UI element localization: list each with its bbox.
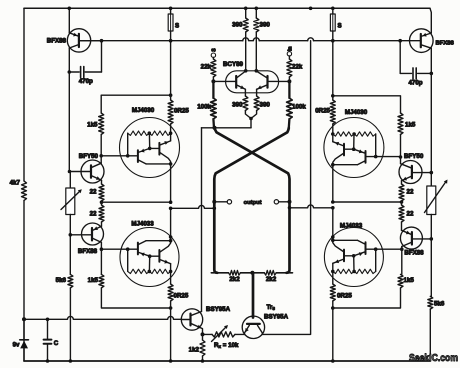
label 5k6 right	[434, 301, 445, 308]
Q3 base lead	[69, 233, 93, 237]
label 390 ll	[232, 102, 243, 109]
power darlington U4 MJ4030 envelope	[324, 118, 384, 178]
label 1k5 lower right	[404, 277, 415, 284]
label MJ4030 right	[345, 109, 368, 116]
svg-text:22: 22	[407, 189, 414, 196]
U4 output base bar	[343, 144, 345, 156]
wire fuse-line to bottom rail	[170, 308, 172, 361]
label 22k right	[292, 64, 303, 71]
RV2 arrow	[425, 180, 448, 213]
label 1k5 upper left	[87, 122, 98, 129]
wire bottom rail	[24, 360, 430, 362]
U5 output emitter lead	[333, 259, 344, 263]
U1 driver collector lead	[138, 160, 171, 164]
wire 1k5 to BFY50 collector node	[100, 135, 102, 156]
svg-text:S: S	[175, 23, 179, 30]
junction bottom rail fuse-line	[169, 359, 173, 363]
svg-text:BFX88: BFX88	[404, 249, 424, 256]
label 470p	[79, 78, 93, 85]
wire 0R25 to junction	[169, 301, 173, 310]
junction on top rail at 390 columns	[244, 7, 258, 11]
Q6 collector lead	[402, 242, 412, 249]
U5 emitter exit to 0R25	[331, 263, 335, 284]
U4 collector entry from 0R25	[331, 124, 335, 142]
Q7 base bar	[420, 34, 422, 47]
junction Q6 collector / U5 base	[400, 247, 404, 251]
capacitor C	[44, 319, 52, 361]
Q3 emitter lead	[92, 222, 102, 231]
thick wire left node to right vertical	[214, 128, 290, 273]
svg-text:22: 22	[90, 189, 97, 196]
U3 right emitter	[257, 85, 268, 93]
terminal output right	[274, 200, 278, 204]
U5 base lead	[366, 248, 402, 250]
junction 390 merge	[249, 117, 253, 128]
svg-text:Rx = 10k: Rx = 10k	[214, 342, 239, 349]
svg-text:0R25: 0R25	[337, 293, 352, 300]
label S offset	[212, 48, 218, 52]
label 9V	[13, 342, 20, 349]
U1 collector entry from 0R25	[169, 124, 173, 141]
wire Tr8 emitter to Rx	[235, 333, 245, 335]
junction on top rail at Tr8 collector line	[309, 7, 313, 11]
svg-text:S: S	[212, 48, 218, 52]
U5 resistor R2	[333, 269, 356, 273]
label 22 d	[407, 211, 414, 218]
U4 driver base bar	[365, 151, 367, 163]
svg-text:BSY95A: BSY95A	[264, 314, 289, 321]
wire hop over Tr8 collector line	[308, 38, 314, 41]
svg-text:BFY50: BFY50	[404, 153, 424, 160]
label MJ4033 right	[340, 223, 363, 230]
resistor 390 lower left	[243, 93, 251, 119]
junction bias rail left end	[22, 317, 26, 321]
U5 output collector lead	[333, 240, 344, 252]
wire base rail y41 left section	[80, 40, 243, 42]
svg-text:22k: 22k	[201, 64, 212, 71]
label 1k5 upper right	[405, 122, 416, 129]
svg-text:100k: 100k	[292, 104, 306, 111]
Q6 base bar	[411, 232, 413, 244]
svg-text:output: output	[244, 200, 262, 206]
U1 driver base bar	[137, 150, 139, 162]
label 0R25 lower left	[174, 293, 189, 300]
resistor 22k right	[287, 56, 292, 81]
Rx arrow	[212, 325, 229, 342]
label 22 c	[407, 189, 414, 196]
resistor 5k6 left	[68, 274, 73, 288]
wire collector node down right	[400, 157, 402, 163]
junction output right	[288, 200, 292, 204]
junction bottom rail 1k2	[201, 359, 205, 363]
capacitor C2 470p	[400, 41, 433, 79]
wire emitter tap right	[331, 200, 402, 204]
Q6 base lead	[412, 237, 433, 241]
U2 output collector lead	[159, 241, 170, 253]
label BFY50 right	[404, 153, 424, 160]
U4 resistor R1	[354, 132, 376, 136]
wire emitter tap left	[102, 200, 173, 204]
U3 left collector	[236, 69, 247, 78]
U5 driver emitter lead	[354, 252, 366, 256]
wire right col2 mid	[430, 73, 432, 186]
U2 collector entry	[169, 208, 173, 242]
Q4 base lead	[181, 319, 190, 321]
wire Q3 collector down	[100, 249, 102, 274]
svg-text:5k6: 5k6	[434, 301, 445, 308]
U1 base lead	[101, 155, 138, 157]
U4 driver emitter lead	[354, 149, 366, 153]
resistor R 22 a	[99, 184, 104, 201]
label 4k7	[10, 180, 21, 187]
svg-text:22k: 22k	[292, 64, 303, 71]
svg-text:0R25: 0R25	[174, 293, 189, 300]
U1 resistor R1	[128, 131, 150, 135]
dual transistor U3 BCY89 envelope	[226, 71, 279, 93]
Q5 collector lead	[401, 164, 412, 169]
junction on top rail at left fuse	[169, 7, 173, 11]
Q4 emitter lead	[191, 323, 203, 334]
U1 emitter exit	[169, 162, 173, 202]
U3 right base bar	[266, 76, 268, 88]
svg-text:390: 390	[260, 102, 271, 109]
label BFX88 Q6	[404, 249, 424, 256]
wire bias rail	[24, 316, 181, 319]
svg-text:MJ4033: MJ4033	[340, 223, 363, 230]
junction bias rail cap C	[46, 318, 50, 322]
Q2 collector lead	[91, 163, 101, 168]
label output	[244, 200, 262, 206]
svg-text:390: 390	[232, 22, 243, 29]
transistor Q1 base bar	[78, 34, 80, 47]
label 390 lr	[260, 102, 271, 109]
U1 output base bar	[158, 143, 160, 155]
Q3 collector lead	[92, 238, 101, 249]
Q6 emitter lead	[402, 222, 412, 235]
terminal output left	[227, 200, 231, 204]
U3 right collector	[254, 69, 267, 78]
Tr8 base bar	[247, 323, 260, 325]
U5 driver base bar	[365, 242, 367, 254]
junction BFY50 collector node	[99, 154, 103, 158]
label 1k2	[189, 347, 200, 354]
wire 0R25r to junction	[331, 301, 335, 310]
junction base rail / left fuse	[169, 39, 173, 43]
transistor Q1 collector lead	[69, 45, 79, 73]
label 390 ul	[232, 22, 243, 29]
label 470p right	[408, 79, 422, 86]
svg-text:S: S	[338, 23, 342, 30]
svg-text:C: C	[54, 340, 59, 347]
svg-text:2k2: 2k2	[229, 276, 240, 283]
wire collector node down	[100, 156, 102, 163]
svg-text:470p: 470p	[79, 78, 93, 85]
label 5k6 left	[56, 277, 67, 284]
U4 resistor R2	[333, 132, 356, 136]
label 390 ur	[260, 22, 271, 29]
U2 resistor R1	[128, 269, 150, 273]
svg-text:2k2: 2k2	[266, 276, 277, 283]
Tr8 emitter lead	[245, 325, 250, 334]
wire right fuse-line to bottom rail	[332, 308, 334, 361]
U4 emitter junction	[344, 134, 356, 151]
U1 driver emitter lead	[138, 148, 150, 152]
wire output stub left	[214, 201, 227, 203]
label 2k2 right	[266, 276, 277, 283]
U1 resistor R2	[148, 131, 171, 135]
svg-text:1k5: 1k5	[405, 122, 416, 129]
Q7 base lead	[410, 40, 421, 42]
wire output stub right	[279, 201, 290, 203]
label 100k left	[197, 104, 211, 111]
transistor Q1 emitter lead	[69, 8, 79, 36]
junction bottom rail 5k6	[69, 359, 73, 363]
junction base rail / left cap drop	[100, 39, 104, 43]
wire base rail y41 mid section	[259, 40, 308, 42]
resistor 0R25 lower left	[168, 284, 173, 301]
svg-text:1k5: 1k5	[88, 277, 99, 284]
U5 driver collector lead	[333, 240, 366, 244]
Q5 emitter lead	[402, 176, 412, 184]
capacitor C1 470p	[68, 41, 102, 78]
Q5 base bar	[411, 166, 413, 178]
svg-text:MJ4030: MJ4030	[345, 109, 368, 116]
resistor 390 upper left	[243, 8, 248, 71]
junction base rail / right fuse	[331, 39, 335, 43]
svg-text:0R25: 0R25	[174, 108, 189, 115]
resistor R 22 c	[399, 184, 404, 201]
Q2 emitter lead	[91, 176, 102, 185]
Q4 base bar	[189, 314, 191, 326]
transistor Q3 BFX88 circle	[82, 223, 104, 245]
svg-text:5k6: 5k6	[56, 277, 67, 284]
label S1	[175, 23, 179, 30]
wire 1k5 top corner	[101, 95, 170, 113]
resistor R 22 d	[399, 201, 404, 222]
wire Tr8 collector up	[262, 41, 310, 335]
resistor R 22 b	[99, 201, 104, 222]
U4 driver collector lead	[333, 161, 366, 165]
wire mid rail right	[288, 205, 335, 210]
svg-text:BCY89: BCY89	[223, 61, 244, 68]
zener diode D1 9V	[20, 319, 29, 361]
junction fuse-line / 1k5 wire	[169, 93, 173, 97]
label BFX88 Q3	[78, 248, 98, 255]
resistor 2k2 left	[211, 270, 252, 275]
resistor 0R25 upper left	[168, 41, 173, 124]
U5 output base bar	[343, 250, 345, 262]
wire left outer rail lower	[23, 201, 25, 362]
label BFX88 Q1	[47, 38, 67, 45]
label 100k right	[292, 104, 306, 111]
wire mid rail left	[169, 205, 216, 210]
U2 base lead	[101, 248, 137, 250]
U3 right base lead	[268, 80, 290, 82]
Q7 collector lead	[421, 45, 432, 74]
U2 resistor R2	[148, 269, 171, 273]
U4 output emitter lead	[333, 142, 344, 146]
label in input	[287, 46, 293, 51]
wire right col2 upper	[430, 8, 431, 33]
label S2	[338, 23, 342, 30]
svg-text:in: in	[287, 46, 293, 51]
Tr8 collector lead	[258, 325, 263, 334]
junction on top rail at right fuse	[331, 7, 335, 11]
resistor 22k left	[211, 57, 216, 81]
U5 collector entry	[331, 208, 335, 242]
label 22 b	[90, 211, 97, 218]
U2 output base bar	[158, 250, 160, 262]
wire 1k5 corner to 0R25 node	[101, 288, 170, 308]
junction left node	[213, 126, 217, 130]
label BCY89	[223, 61, 244, 68]
wire Q4 collector line up	[201, 128, 203, 312]
svg-text:BSY95A: BSY95A	[206, 306, 231, 313]
thick wire right node to left vertical	[214, 128, 288, 273]
U2 output emitter lead	[159, 259, 170, 263]
U1 base post	[126, 133, 130, 157]
label C	[54, 340, 59, 347]
label 2k2 left	[229, 276, 240, 283]
svg-text:BFX88: BFX88	[78, 248, 98, 255]
U4 output collector lead	[333, 153, 344, 165]
junction on top rail at left BFX88 emitter	[68, 7, 72, 11]
label 22k left	[201, 64, 212, 71]
transistor Q5 BFY50 circle	[399, 161, 422, 184]
svg-text:390: 390	[260, 22, 271, 29]
label 1k5 lower left	[88, 277, 99, 284]
RV1 arrow	[61, 189, 82, 209]
wire hop over 390 columns	[243, 38, 259, 41]
svg-text:0R25: 0R25	[315, 108, 330, 115]
wire Q6 collector down	[401, 249, 403, 274]
label 22 a	[90, 189, 97, 196]
resistor 0R25 lower right	[330, 284, 335, 301]
fuse S2	[330, 8, 335, 40]
wire 1k5 to BFY50r collector node	[400, 135, 402, 158]
svg-text:MJ4030: MJ4030	[132, 107, 155, 114]
label BSY95A Tr8	[264, 314, 289, 321]
resistor 1k2	[200, 334, 205, 361]
svg-text:100k: 100k	[197, 104, 211, 111]
label BSY95A left	[206, 306, 231, 313]
svg-text:1k5: 1k5	[404, 277, 415, 284]
U1 emitter junction	[148, 133, 160, 150]
wire top supply rail	[24, 7, 430, 9]
U4 base post	[374, 134, 378, 158]
svg-text:22: 22	[90, 211, 97, 218]
wire base rail y41 right section	[314, 40, 410, 42]
wire 5k6r to bottom rail	[429, 309, 431, 361]
watermark	[409, 352, 458, 364]
rheostat RV2	[427, 186, 436, 296]
svg-text:1k2: 1k2	[189, 347, 200, 354]
resistor 1k5 upper right	[398, 113, 403, 135]
fuse S1	[168, 8, 173, 40]
wire left col2 mid	[68, 72, 70, 172]
junction right fuse-line / 1k5 wire	[331, 94, 335, 98]
junction output left	[212, 200, 216, 204]
power darlington U5 MJ4033 envelope	[324, 228, 383, 287]
transistor Q7 BFX88 circle	[410, 29, 434, 53]
resistor 100k right	[287, 81, 293, 127]
terminal S left	[211, 53, 215, 57]
junction 22k/base left	[211, 79, 215, 83]
svg-text:4k7: 4k7	[10, 180, 21, 187]
resistor 1k5 upper left	[99, 113, 104, 135]
junction BFY50r collector node	[399, 155, 403, 159]
resistor 100k left	[211, 81, 217, 127]
U2 driver emitter lead	[138, 252, 150, 256]
U2 emitter junction	[148, 254, 160, 271]
junction 22-22 right	[400, 200, 404, 204]
label 0R25 lower right	[337, 293, 352, 300]
junction 22k/base right	[287, 79, 291, 83]
Q3 base bar	[91, 228, 93, 240]
label BFX88 Q7	[436, 41, 455, 47]
wire left outer rail upper	[23, 8, 25, 181]
transistor Q6 BFX88 circle	[400, 227, 422, 249]
U1 output collector lead	[159, 152, 170, 164]
U5 base post	[374, 247, 378, 271]
wire 1k5 right top corner	[333, 96, 401, 113]
U2 driver collector lead	[138, 241, 171, 245]
power darlington U2 MJ4033 envelope	[120, 228, 179, 287]
label Tr8	[267, 304, 276, 311]
U4 base lead	[366, 156, 401, 158]
junction Q3 collector / U2 base	[100, 247, 104, 251]
terminal in right	[287, 52, 291, 56]
resistor 0R25 upper right	[330, 41, 335, 124]
svg-text:BFX88: BFX88	[47, 38, 67, 45]
Q5 base lead	[412, 171, 433, 175]
junction bottom rail C	[46, 359, 50, 363]
Q7 emitter lead	[421, 33, 432, 37]
svg-text:22: 22	[407, 211, 414, 218]
U4 emitter exit	[331, 163, 335, 202]
power darlington U1 MJ4030 envelope	[120, 118, 180, 178]
svg-text:BFX88: BFX88	[436, 41, 455, 47]
Q2 base lead	[68, 170, 91, 174]
resistor 2k2 right	[252, 270, 292, 275]
junction 22-22	[100, 200, 104, 204]
Q4 collector lead	[191, 312, 202, 316]
U3 left base bar	[235, 76, 237, 88]
label 0R25 upper right	[315, 108, 330, 115]
transistor Tr8 BSY95A circle	[242, 316, 264, 338]
label Rx	[214, 342, 239, 349]
label MJ4030 left	[132, 107, 155, 114]
U3 left emitter	[236, 85, 245, 93]
junction 2k2 centre	[250, 271, 254, 275]
junction base rail / right cap drop	[398, 39, 402, 43]
resistor 390 upper right	[254, 8, 259, 71]
Q2 base bar	[90, 165, 92, 177]
svg-text:390: 390	[232, 102, 243, 109]
U3 left base lead	[213, 80, 236, 82]
rheostat Rx 10k	[203, 332, 236, 337]
label 0R25 upper left	[174, 108, 189, 115]
wire 390 merge to left node	[202, 127, 252, 129]
svg-text:1k5: 1k5	[87, 122, 98, 129]
svg-text:Tr8: Tr8	[267, 304, 276, 311]
resistor 5k6 right	[428, 296, 433, 309]
transistor Q4 BSY95A circle	[181, 309, 202, 330]
label MJ4033 left	[131, 221, 154, 228]
transistor Q1 base lead	[79, 40, 102, 42]
thick wire centre to Tr8	[252, 273, 255, 318]
junction bottom rail right fuse-line	[331, 359, 335, 363]
